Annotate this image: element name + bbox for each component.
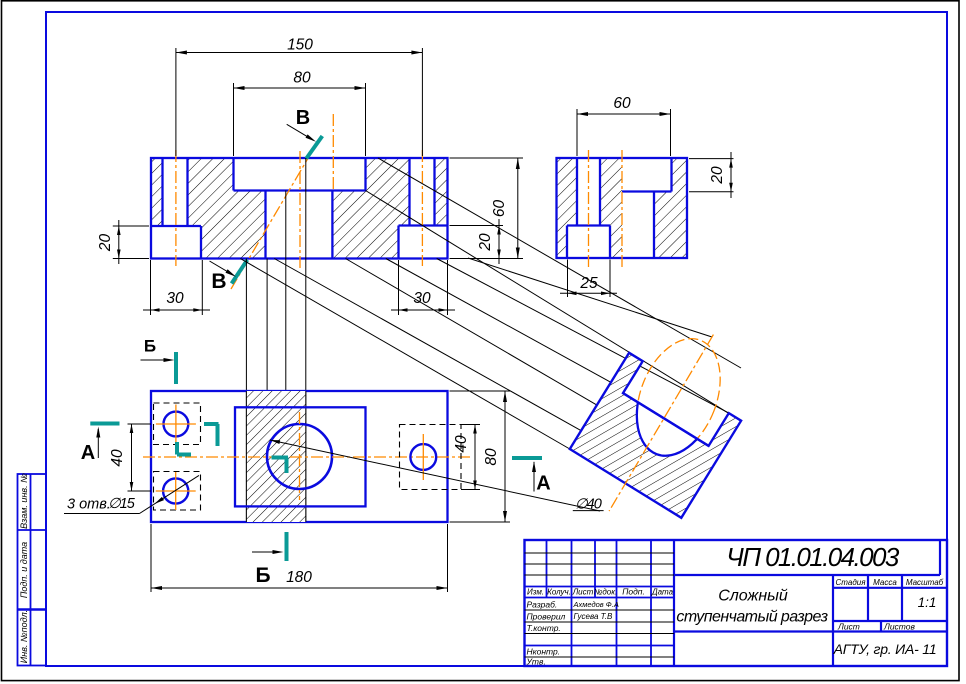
top view inner rect [235,407,366,506]
svg-text:Масштаб: Масштаб [906,578,944,587]
front view centerline left hole [175,150,177,266]
side section bottom notch white [567,226,610,259]
hole 1 centerlines [156,423,196,425]
section B upper teal bar [306,136,322,159]
svg-text:А: А [536,473,550,495]
hole 2 dashed square [154,472,201,511]
side section lower recess white [622,192,654,259]
svg-text:Инв. №подл.: Инв. №подл. [19,610,29,663]
section B2 step segment c [175,442,179,455]
top view big circle vertical centerline [299,412,301,500]
front view top notch outline [232,158,234,191]
section A left arrow [97,429,99,458]
section B2 step segment b [216,424,220,446]
section B2 step segment e [272,456,289,460]
side section top groove white [622,158,672,192]
svg-text:Утв.: Утв. [526,657,546,667]
svg-text:Взам. инв. №: Взам. инв. № [19,473,29,529]
front view right foot notch edges [399,224,448,226]
title block big vertical divider [673,540,675,666]
svg-text:60: 60 [491,200,508,218]
svg-text:150: 150 [287,37,313,54]
svg-text:В: В [296,107,310,129]
title block left grid verticals lower [571,598,573,667]
projection line vertical 3 [285,191,287,392]
svg-text:ЧП 01.01.04.003: ЧП 01.01.04.003 [726,542,900,572]
front view right channel walls [408,158,410,226]
rotated section outline [570,353,741,518]
svg-text:Подп. и дата: Подп. и дата [19,542,29,598]
svg-text:80: 80 [483,448,500,466]
section B2 bottom arrow [252,551,281,553]
svg-text:40: 40 [453,435,470,453]
section A left bar [90,422,119,426]
title block designation cell [674,574,940,576]
front view left hole channel white [163,158,188,226]
front view centerline big hole [299,151,301,268]
side section recess right wall [653,192,655,259]
front view short centerline [332,114,334,192]
projection line slanted 7 [468,258,712,337]
projection line slanted 0 [378,158,741,368]
dimension 30 front left [150,260,152,315]
top view big circle [267,424,332,489]
dimension 80 top view [450,390,511,392]
svg-text:Дата: Дата [651,588,674,597]
dimension 80 top [233,83,235,156]
svg-text:80: 80 [293,70,311,87]
svg-text:40: 40 [109,449,126,467]
rotated section ellipse centerline circle orange [621,327,736,468]
dimension 25 side view [567,260,569,298]
front view left foot notch white [151,226,201,259]
top view main horizontal centerline [143,456,470,458]
side section channel walls [576,158,578,226]
title block signature rows [525,609,675,611]
projection line slanted 5 [274,259,581,431]
svg-text:Т.контр.: Т.контр. [527,623,561,633]
dimension 20 front right [450,225,504,227]
svg-text:Проверил: Проверил [527,612,566,622]
side section groove bottom [622,190,672,192]
label diam 40 [270,440,600,511]
dimension 180 [150,524,152,592]
title block outer [525,540,948,666]
svg-text:А: А [81,442,95,464]
svg-text:АГТУ, гр. ИА- 11: АГТУ, гр. ИА- 11 [833,641,937,657]
dimension 20 front left [113,225,149,227]
section B2 bottom bar [285,532,289,561]
top view outer rect [151,391,448,522]
projection line vertical 2 [266,259,268,392]
svg-text:20: 20 [97,234,114,253]
svg-text:60: 60 [613,95,631,112]
projection line slanted 1 [366,191,742,421]
section A right arrow [533,462,535,492]
svg-text:Б: Б [255,564,270,587]
dimension 20 side view [689,158,734,160]
hole 3 dashed square [400,425,462,490]
front view right hole channel white [410,158,435,226]
side section hole channel white [577,158,600,226]
projection line slanted 3 [386,259,611,383]
title block left grid verticals upper [546,540,548,598]
rotated section hole ellipse blue arc [621,327,736,468]
rotated section hatched body [570,353,741,518]
svg-text:∅15: ∅15 [108,496,136,512]
front view right foot notch white [399,226,448,259]
dimension 60 side view [576,109,578,156]
hole 1 dashed square [154,403,201,445]
svg-text:Б: Б [144,336,156,355]
title block spare rows [525,552,675,554]
side section groove right wall [670,158,672,192]
side section outline [557,158,688,258]
front view central slot walls [264,191,266,259]
projection line slanted 6 [240,259,570,450]
front view outline [151,158,448,259]
svg-text:Подп.: Подп. [622,587,645,597]
svg-text:20: 20 [477,233,494,252]
svg-text:Сложный: Сложный [718,588,788,605]
rotated section axis centerline [609,335,713,512]
side section bottom notch edges [567,224,610,226]
title block right columns [832,575,834,666]
svg-text:∅40: ∅40 [575,497,602,513]
rotated section groove bottom thick line [623,393,709,446]
hole 1 [164,412,189,437]
side section hatched body [557,158,688,258]
svg-text:Разраб.: Разраб. [527,600,558,610]
svg-text:Изм.: Изм. [527,588,544,597]
front view top notch white [234,158,366,191]
projection line slanted 2 [437,259,731,414]
hole 3 vertical centerline [422,434,424,480]
svg-text:180: 180 [286,569,312,586]
section A right bar [512,456,542,460]
title block header row [525,586,675,588]
svg-text:30: 30 [413,290,431,307]
inclined section trace B-B centerline [231,143,317,289]
front view centerline right hole [421,150,423,266]
section B2 step segment f [285,458,289,474]
svg-text:Стадия: Стадия [836,578,867,587]
section B2 top arrow [141,359,173,361]
projection line vertical 4 [305,158,307,522]
front view central slot white [266,191,333,259]
hole 2 centerlines [156,490,196,492]
svg-text:Лист: Лист [837,622,860,632]
section B lower teal bar [232,260,248,284]
svg-text:Лист: Лист [572,588,594,597]
top view hatched strip [246,391,305,522]
svg-text:Колуч.: Колуч. [547,588,571,597]
svg-text:В: В [211,270,226,293]
svg-text:3 отв.: 3 отв. [67,497,111,513]
front view hatched body [151,158,448,259]
section B2 top bar [174,352,178,384]
hole 3 [410,444,436,470]
section B2 step segment d [177,453,191,457]
section B lower arrow [210,261,234,275]
dimension 40 left [128,423,152,425]
svg-text:Гусева Т.В: Гусева Т.В [574,612,614,621]
section B upper arrow [287,124,314,140]
projection line vertical 1 [245,259,247,523]
side section centerline 2 [621,150,623,268]
dimension 40 right [461,424,480,426]
svg-text:Ахмедов Ф.А: Ахмедов Ф.А [573,600,619,609]
svg-text:№док.: №док. [594,588,618,597]
projection line slanted 4 [346,259,598,406]
front view left channel walls [161,158,163,226]
left margin cells [18,474,47,666]
section B2 step segment a [204,422,219,426]
title block name cell bottom [674,630,833,632]
front view left foot notch edges [151,225,201,227]
dimension 30 front right [398,260,400,315]
dimension 60 front right [450,157,524,159]
svg-text:1:1: 1:1 [918,595,937,610]
svg-text:30: 30 [166,290,184,307]
svg-text:20: 20 [709,166,726,185]
side section centerline 1 [588,150,590,268]
svg-text:Листов: Листов [883,622,916,632]
svg-text:Нконтр.: Нконтр. [527,647,561,657]
hole 2 [163,478,188,503]
svg-text:ступенчатый разрез: ступенчатый разрез [676,609,827,626]
dimension 150 [175,48,177,156]
svg-text:Масса: Масса [873,578,897,587]
